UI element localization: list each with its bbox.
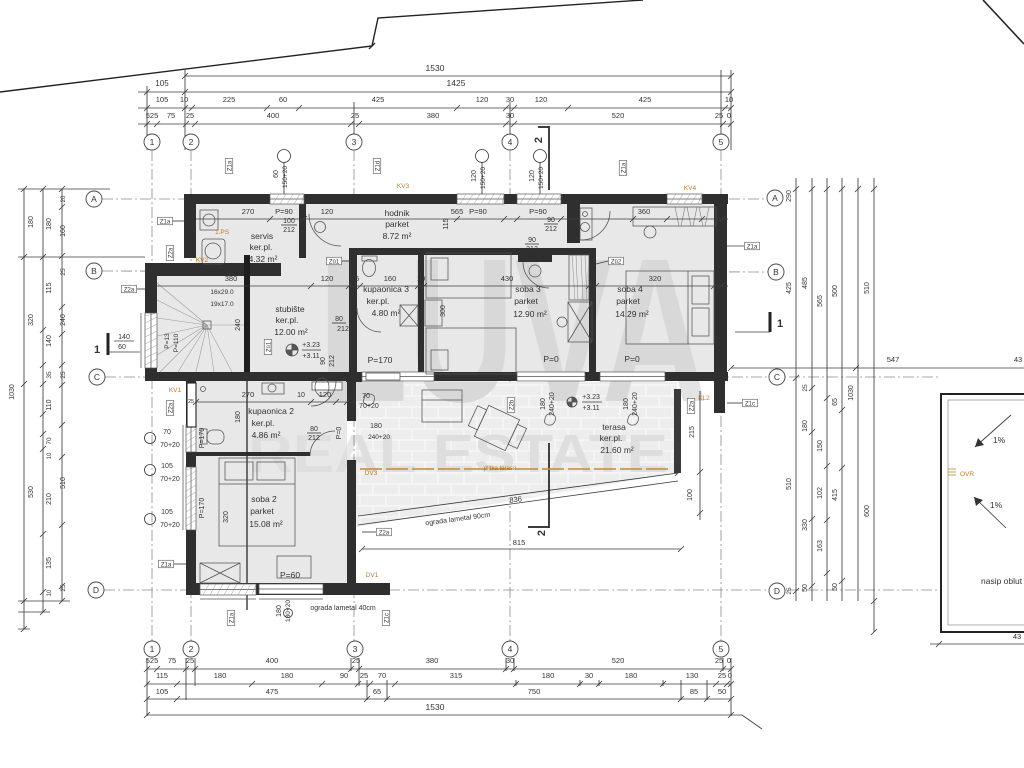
svg-text:Z1a: Z1a <box>229 612 235 623</box>
svg-text:180: 180 <box>542 671 555 680</box>
grid bubbles top 1-5 <box>144 134 160 150</box>
level mark stubiste <box>286 344 298 356</box>
svg-text:3: 3 <box>352 137 357 147</box>
svg-text:415: 415 <box>832 489 839 501</box>
svg-text:KV3: KV3 <box>397 183 410 190</box>
svg-text:400: 400 <box>267 111 280 120</box>
svg-text:5: 5 <box>719 137 724 147</box>
svg-text:+3.23: +3.23 <box>582 394 600 401</box>
svg-text:P=0: P=0 <box>543 354 559 364</box>
svg-text:16x29.0: 16x29.0 <box>210 289 234 296</box>
level mark terasa <box>567 397 577 407</box>
svg-text:180: 180 <box>540 398 547 410</box>
svg-text:105: 105 <box>156 687 169 696</box>
svg-text:stubište: stubište <box>275 304 305 314</box>
svg-text:+3.11: +3.11 <box>302 353 319 360</box>
svg-text:90: 90 <box>528 237 536 244</box>
dim 43 line bottom <box>930 643 1024 645</box>
svg-text:A: A <box>91 194 97 204</box>
svg-text:160: 160 <box>60 225 67 237</box>
svg-text:240: 240 <box>60 314 67 326</box>
svg-text:150+20: 150+20 <box>480 167 487 189</box>
terrace posts <box>363 394 374 405</box>
wall soba2 bottom <box>186 583 356 595</box>
svg-text:530: 530 <box>28 486 35 498</box>
svg-text:C: C <box>774 372 780 382</box>
svg-text:Z1d: Z1d <box>375 161 381 171</box>
section 1 right marker <box>769 312 772 332</box>
svg-text:2: 2 <box>189 137 194 147</box>
svg-text:P=13: P=13 <box>164 333 171 349</box>
svg-text:servis: servis <box>251 231 273 241</box>
svg-text:70+20: 70+20 <box>160 476 180 483</box>
svg-text:90: 90 <box>340 671 348 680</box>
svg-text:80: 80 <box>310 426 318 433</box>
svg-text:12.90 m²: 12.90 m² <box>513 309 547 319</box>
svg-text:70: 70 <box>378 671 386 680</box>
terrace railing diagonal 1 <box>358 473 678 516</box>
left horizontal connectors <box>18 189 145 629</box>
svg-text:plitka terasa: plitka terasa <box>484 466 517 472</box>
bottom dim row 1 <box>147 668 731 670</box>
bottom dim row 4 (1530) <box>147 714 742 716</box>
bottom extension verticals <box>147 658 731 716</box>
svg-text:180: 180 <box>276 605 283 617</box>
svg-text:Z1a: Z1a <box>160 219 171 225</box>
svg-text:25: 25 <box>786 587 793 595</box>
svg-text:120: 120 <box>529 170 536 182</box>
section 1 left marker <box>107 333 110 355</box>
door lobby-kup2 <box>311 381 336 406</box>
svg-text:140: 140 <box>118 334 130 341</box>
svg-text:90: 90 <box>547 217 555 224</box>
window soba2 left wall <box>186 467 196 530</box>
svg-text:5: 5 <box>719 644 724 654</box>
svg-text:0: 0 <box>727 656 731 665</box>
terrace sofa <box>422 390 462 422</box>
svg-text:P=90: P=90 <box>469 207 487 216</box>
svg-text:D: D <box>774 586 780 596</box>
svg-text:135: 135 <box>46 557 53 569</box>
svg-text:KV1: KV1 <box>169 387 182 394</box>
svg-text:320: 320 <box>649 274 662 283</box>
svg-text:ker.pl.: ker.pl. <box>252 418 275 428</box>
svg-text:43: 43 <box>1014 355 1022 364</box>
svg-text:105: 105 <box>161 463 173 470</box>
wall stair bottom <box>145 372 250 381</box>
window soba3 bottom P=0 <box>517 372 585 381</box>
svg-text:180: 180 <box>214 671 227 680</box>
svg-text:290: 290 <box>786 190 793 202</box>
svg-text:kupaonica 2: kupaonica 2 <box>248 406 294 416</box>
top dimension row 4 <box>138 123 731 125</box>
svg-text:1: 1 <box>94 344 100 356</box>
kup2 sink oval <box>315 378 329 396</box>
svg-text:25: 25 <box>717 207 725 216</box>
svg-text:Z1c: Z1c <box>745 401 755 407</box>
svg-text:P=110: P=110 <box>173 333 180 352</box>
top dimension row 1425 <box>138 91 731 93</box>
wall bottom band segments <box>244 372 346 381</box>
svg-text:1: 1 <box>150 644 155 654</box>
svg-text:240+20: 240+20 <box>632 392 639 416</box>
svg-text:DV3: DV3 <box>365 470 378 477</box>
wall kup2-soba2 divider <box>196 452 310 456</box>
door servis-hodnik arc <box>309 214 341 246</box>
svg-text:soba 3: soba 3 <box>515 284 541 294</box>
window soba4 top <box>667 194 702 204</box>
svg-text:25: 25 <box>351 274 359 283</box>
svg-text:1.PS: 1.PS <box>215 229 230 236</box>
svg-text:25: 25 <box>351 111 359 120</box>
svg-text:1: 1 <box>150 137 155 147</box>
svg-text:510: 510 <box>786 478 793 490</box>
svg-text:212: 212 <box>329 355 336 367</box>
plumbing vent 1 <box>278 150 291 163</box>
svg-text:25: 25 <box>715 656 723 665</box>
dim 547 line <box>731 367 1024 369</box>
svg-text:soba 4: soba 4 <box>617 284 643 294</box>
svg-text:1: 1 <box>777 318 783 330</box>
door kup3 arc <box>357 308 381 332</box>
svg-text:43: 43 <box>1013 632 1021 641</box>
nasip arrow 2 <box>974 497 1006 528</box>
svg-text:150: 150 <box>817 440 824 452</box>
svg-text:836: 836 <box>509 494 523 505</box>
svg-text:565: 565 <box>451 207 464 216</box>
svg-text:180+20: 180+20 <box>285 600 292 622</box>
row C dashed line and bubbles <box>105 376 940 378</box>
svg-text:12.00 m²: 12.00 m² <box>274 327 308 337</box>
svg-text:320: 320 <box>28 314 35 326</box>
svg-text:30: 30 <box>506 656 514 665</box>
svg-text:105: 105 <box>155 79 169 88</box>
floor fill stair block <box>157 267 249 373</box>
section 2 bottom marker <box>528 443 549 528</box>
svg-text:25: 25 <box>188 399 194 405</box>
svg-text:100: 100 <box>283 218 295 225</box>
svg-text:KL2: KL2 <box>698 395 710 402</box>
svg-text:25: 25 <box>718 671 726 680</box>
svg-text:Z1a: Z1a <box>161 562 172 568</box>
svg-text:520: 520 <box>612 111 625 120</box>
svg-text:110: 110 <box>46 399 53 410</box>
wall stubiste right (dark) <box>244 255 250 378</box>
window kup2 left wall <box>186 425 196 452</box>
door hodnik-soba3 <box>518 255 552 262</box>
svg-text:1%: 1% <box>993 435 1006 445</box>
svg-text:Zǔ1: Zǔ1 <box>329 259 340 265</box>
svg-text:240+20: 240+20 <box>368 434 390 441</box>
svg-text:510: 510 <box>864 282 871 294</box>
svg-text:225: 225 <box>223 95 236 104</box>
site boundary polyline <box>0 0 643 92</box>
svg-text:102: 102 <box>817 487 824 499</box>
window soba2 bottom hatch <box>200 584 256 595</box>
svg-text:70+20: 70+20 <box>359 403 379 410</box>
svg-text:4.86 m²: 4.86 m² <box>252 430 281 440</box>
wall kupaonica3 right <box>418 255 424 372</box>
door soba4 arc <box>581 211 610 240</box>
svg-text:0: 0 <box>727 111 731 120</box>
svg-text:70+20: 70+20 <box>160 522 180 529</box>
top dimension row 3 <box>138 107 731 109</box>
svg-text:25: 25 <box>60 268 67 276</box>
svg-text:160: 160 <box>384 274 397 283</box>
interior dim chain y286 <box>157 285 728 287</box>
wall soba3-soba4 <box>589 255 596 372</box>
svg-text:60: 60 <box>279 95 287 104</box>
svg-text:115: 115 <box>156 671 168 680</box>
row D dashed line and bubbles <box>104 589 940 591</box>
servis washbasin <box>200 210 218 230</box>
svg-text:ograda lametal 40cm: ograda lametal 40cm <box>310 605 376 612</box>
soba2 door threshold below wall <box>312 382 342 390</box>
wall left exterior upper <box>184 204 196 258</box>
top extension verticals <box>147 70 731 150</box>
interior dim chain y219 <box>196 218 728 220</box>
svg-text:212: 212 <box>526 246 538 253</box>
svg-text:35: 35 <box>46 371 53 379</box>
servis boiler <box>202 239 225 264</box>
svg-text:180: 180 <box>235 411 242 423</box>
wall hodnik bottom (kup3/soba3 top) <box>349 248 596 255</box>
wall soba2 left <box>186 381 196 595</box>
svg-text:Z1c: Z1c <box>384 613 390 623</box>
svg-text:65: 65 <box>832 398 839 406</box>
window servis top P=90 <box>270 194 304 204</box>
svg-text:ker.pl.: ker.pl. <box>600 433 623 443</box>
svg-text:50: 50 <box>802 584 809 592</box>
plumbing vent 3 <box>534 150 547 163</box>
svg-text:360: 360 <box>638 207 651 216</box>
svg-text:547: 547 <box>887 355 900 364</box>
wall top exterior <box>184 194 728 204</box>
bottom bubbles <box>144 641 160 657</box>
watermark LUVA light over floors <box>248 216 708 484</box>
svg-text:380: 380 <box>426 656 439 665</box>
svg-text:70: 70 <box>46 437 53 445</box>
svg-text:520: 520 <box>612 656 625 665</box>
svg-text:510: 510 <box>60 477 67 489</box>
plumbing vent 2 <box>476 150 489 163</box>
svg-text:105: 105 <box>161 509 173 516</box>
svg-text:parket: parket <box>514 296 538 306</box>
svg-text:85: 85 <box>690 687 698 696</box>
soba4 wardrobe <box>633 207 716 226</box>
soba4 bed <box>626 271 714 344</box>
nasip box outer <box>941 394 1024 632</box>
svg-text:nasip oblut: nasip oblut <box>981 576 1023 586</box>
terrace right dim 215/100 <box>699 391 701 520</box>
svg-text:212: 212 <box>545 226 557 233</box>
svg-text:815: 815 <box>513 538 526 547</box>
soba2 bed <box>219 458 295 546</box>
window hodnik top P=90 b <box>517 194 561 204</box>
soba3 bed 1 <box>426 253 511 298</box>
terrace railing diagonal 2 <box>358 481 678 525</box>
svg-text:120: 120 <box>535 95 548 104</box>
svg-text:25: 25 <box>60 584 67 592</box>
svg-text:30: 30 <box>585 671 593 680</box>
svg-text:parket: parket <box>250 506 274 516</box>
svg-text:DV1: DV1 <box>366 572 379 579</box>
svg-text:4.32 m²: 4.32 m² <box>249 254 278 264</box>
svg-text:parket: parket <box>385 219 409 229</box>
svg-text:10: 10 <box>588 274 596 283</box>
svg-text:212: 212 <box>283 227 295 234</box>
svg-text:25: 25 <box>802 384 809 392</box>
svg-text:P=170: P=170 <box>368 355 393 365</box>
svg-text:1530: 1530 <box>426 63 445 73</box>
svg-text:+3.23: +3.23 <box>302 342 320 349</box>
svg-text:P=90: P=90 <box>275 207 293 216</box>
svg-text:Zǔ2: Zǔ2 <box>611 259 622 265</box>
svg-text:4: 4 <box>508 137 513 147</box>
svg-text:25: 25 <box>186 111 194 120</box>
site boundary top-right diagonal <box>983 0 1024 44</box>
wall stair left <box>145 276 157 381</box>
svg-text:120: 120 <box>471 170 478 182</box>
svg-text:terasa: terasa <box>602 422 626 432</box>
svg-text:B: B <box>773 267 779 277</box>
svg-text:120: 120 <box>321 207 334 216</box>
svg-text:212: 212 <box>337 326 349 333</box>
vertical grid dashed lines <box>151 150 153 641</box>
svg-text:P=60: P=60 <box>280 570 300 580</box>
svg-text:25: 25 <box>186 656 194 665</box>
soba3 wardrobe hatch <box>569 255 589 300</box>
svg-text:140: 140 <box>46 335 53 347</box>
svg-text:100: 100 <box>687 489 694 501</box>
svg-text:215: 215 <box>689 426 696 438</box>
svg-text:1030: 1030 <box>848 385 855 401</box>
kup2 wall pier white <box>187 383 196 427</box>
svg-text:163: 163 <box>817 540 824 552</box>
svg-text:270: 270 <box>242 207 255 216</box>
svg-text:120: 120 <box>321 274 334 283</box>
svg-text:10: 10 <box>47 589 53 596</box>
soba4 vanity <box>580 208 592 240</box>
svg-text:C: C <box>94 372 100 382</box>
svg-text:2: 2 <box>189 644 194 654</box>
svg-text:4.80 m²: 4.80 m² <box>372 308 401 318</box>
nasip box inner <box>948 400 1024 625</box>
svg-text:20: 20 <box>61 195 67 202</box>
nasip arrow 1 <box>975 415 1011 447</box>
svg-text:485: 485 <box>802 277 809 289</box>
svg-text:300: 300 <box>440 305 447 317</box>
svg-text:750: 750 <box>528 687 541 696</box>
svg-text:180: 180 <box>625 671 638 680</box>
svg-text:1030: 1030 <box>9 384 16 400</box>
line mystery vertical x247 <box>246 381 248 610</box>
svg-text:P=0: P=0 <box>336 427 343 440</box>
svg-text:60: 60 <box>118 344 126 351</box>
svg-text:525: 525 <box>146 656 159 665</box>
svg-text:270: 270 <box>242 390 255 399</box>
svg-text:80: 80 <box>335 316 343 323</box>
top dimension row 1530 <box>185 75 731 77</box>
svg-text:240+20: 240+20 <box>549 392 556 416</box>
wall kup2/soba2 right (terrace side) <box>347 381 356 421</box>
svg-text:180: 180 <box>46 218 53 230</box>
wall servis right <box>299 204 306 258</box>
svg-text:525: 525 <box>146 111 159 120</box>
svg-text:75: 75 <box>168 656 176 665</box>
svg-text:10: 10 <box>180 95 188 104</box>
svg-text:330: 330 <box>802 519 809 531</box>
window soba2 bottom P=60 <box>259 584 323 594</box>
wall soba4 entry stub <box>567 204 580 243</box>
floor fill soba2 block <box>196 381 347 584</box>
kup3 shower <box>400 305 418 326</box>
svg-text:21.60 m²: 21.60 m² <box>600 445 634 455</box>
svg-text:70: 70 <box>163 429 171 436</box>
section 2 top marker <box>538 126 549 190</box>
row A dashed line and bubbles <box>102 198 768 200</box>
svg-text:50: 50 <box>718 687 726 696</box>
svg-text:14.29 m²: 14.29 m² <box>615 309 649 319</box>
svg-text:25: 25 <box>715 111 723 120</box>
svg-text:4: 4 <box>508 644 513 654</box>
door kup2-soba2 <box>310 431 335 456</box>
boxed labels <box>225 159 233 174</box>
left vent circles <box>145 433 156 444</box>
svg-text:400: 400 <box>266 656 279 665</box>
dim 815 <box>362 548 681 550</box>
kup2 toilet <box>201 429 207 444</box>
svg-text:Z2b: Z2b <box>509 399 515 410</box>
terrace table rotated <box>465 401 528 455</box>
svg-text:soba 2: soba 2 <box>251 494 277 504</box>
svg-text:115: 115 <box>46 282 53 293</box>
svg-text:1%: 1% <box>990 500 1003 510</box>
svg-text:115: 115 <box>443 218 450 229</box>
kup2 vanity <box>262 383 284 394</box>
svg-text:380: 380 <box>427 111 440 120</box>
bottom dim row 2 <box>147 683 731 685</box>
wall terrace right <box>674 389 681 473</box>
soba3 bed 2 <box>426 328 516 374</box>
svg-text:75: 75 <box>167 111 175 120</box>
svg-text:D: D <box>93 585 99 595</box>
soba2 desk <box>277 556 311 578</box>
soba3 crib X-box <box>568 302 592 342</box>
svg-text:240: 240 <box>235 319 242 331</box>
svg-text:Z2a: Z2a <box>168 402 174 413</box>
svg-text:380: 380 <box>225 274 238 283</box>
soba3 table <box>425 300 442 326</box>
svg-text:parket: parket <box>616 296 640 306</box>
svg-text:475: 475 <box>266 687 279 696</box>
svg-text:P=0: P=0 <box>624 354 640 364</box>
svg-text:19x17.0: 19x17.0 <box>210 301 234 308</box>
svg-text:10: 10 <box>47 452 53 459</box>
svg-text:Z2a: Z2a <box>689 400 695 411</box>
svg-text:25: 25 <box>360 671 368 680</box>
svg-text:90: 90 <box>320 357 327 365</box>
svg-text:Z2a: Z2a <box>124 287 135 293</box>
svg-text:320: 320 <box>223 511 230 523</box>
svg-text:P=170: P=170 <box>199 428 206 449</box>
svg-text:425: 425 <box>639 95 652 104</box>
svg-text:KV4: KV4 <box>684 185 697 192</box>
svg-text:Zǔ1: Zǔ1 <box>266 341 272 352</box>
right vertical dim lines <box>795 178 797 601</box>
svg-text:180: 180 <box>370 423 382 430</box>
orange terrace line <box>360 468 672 470</box>
